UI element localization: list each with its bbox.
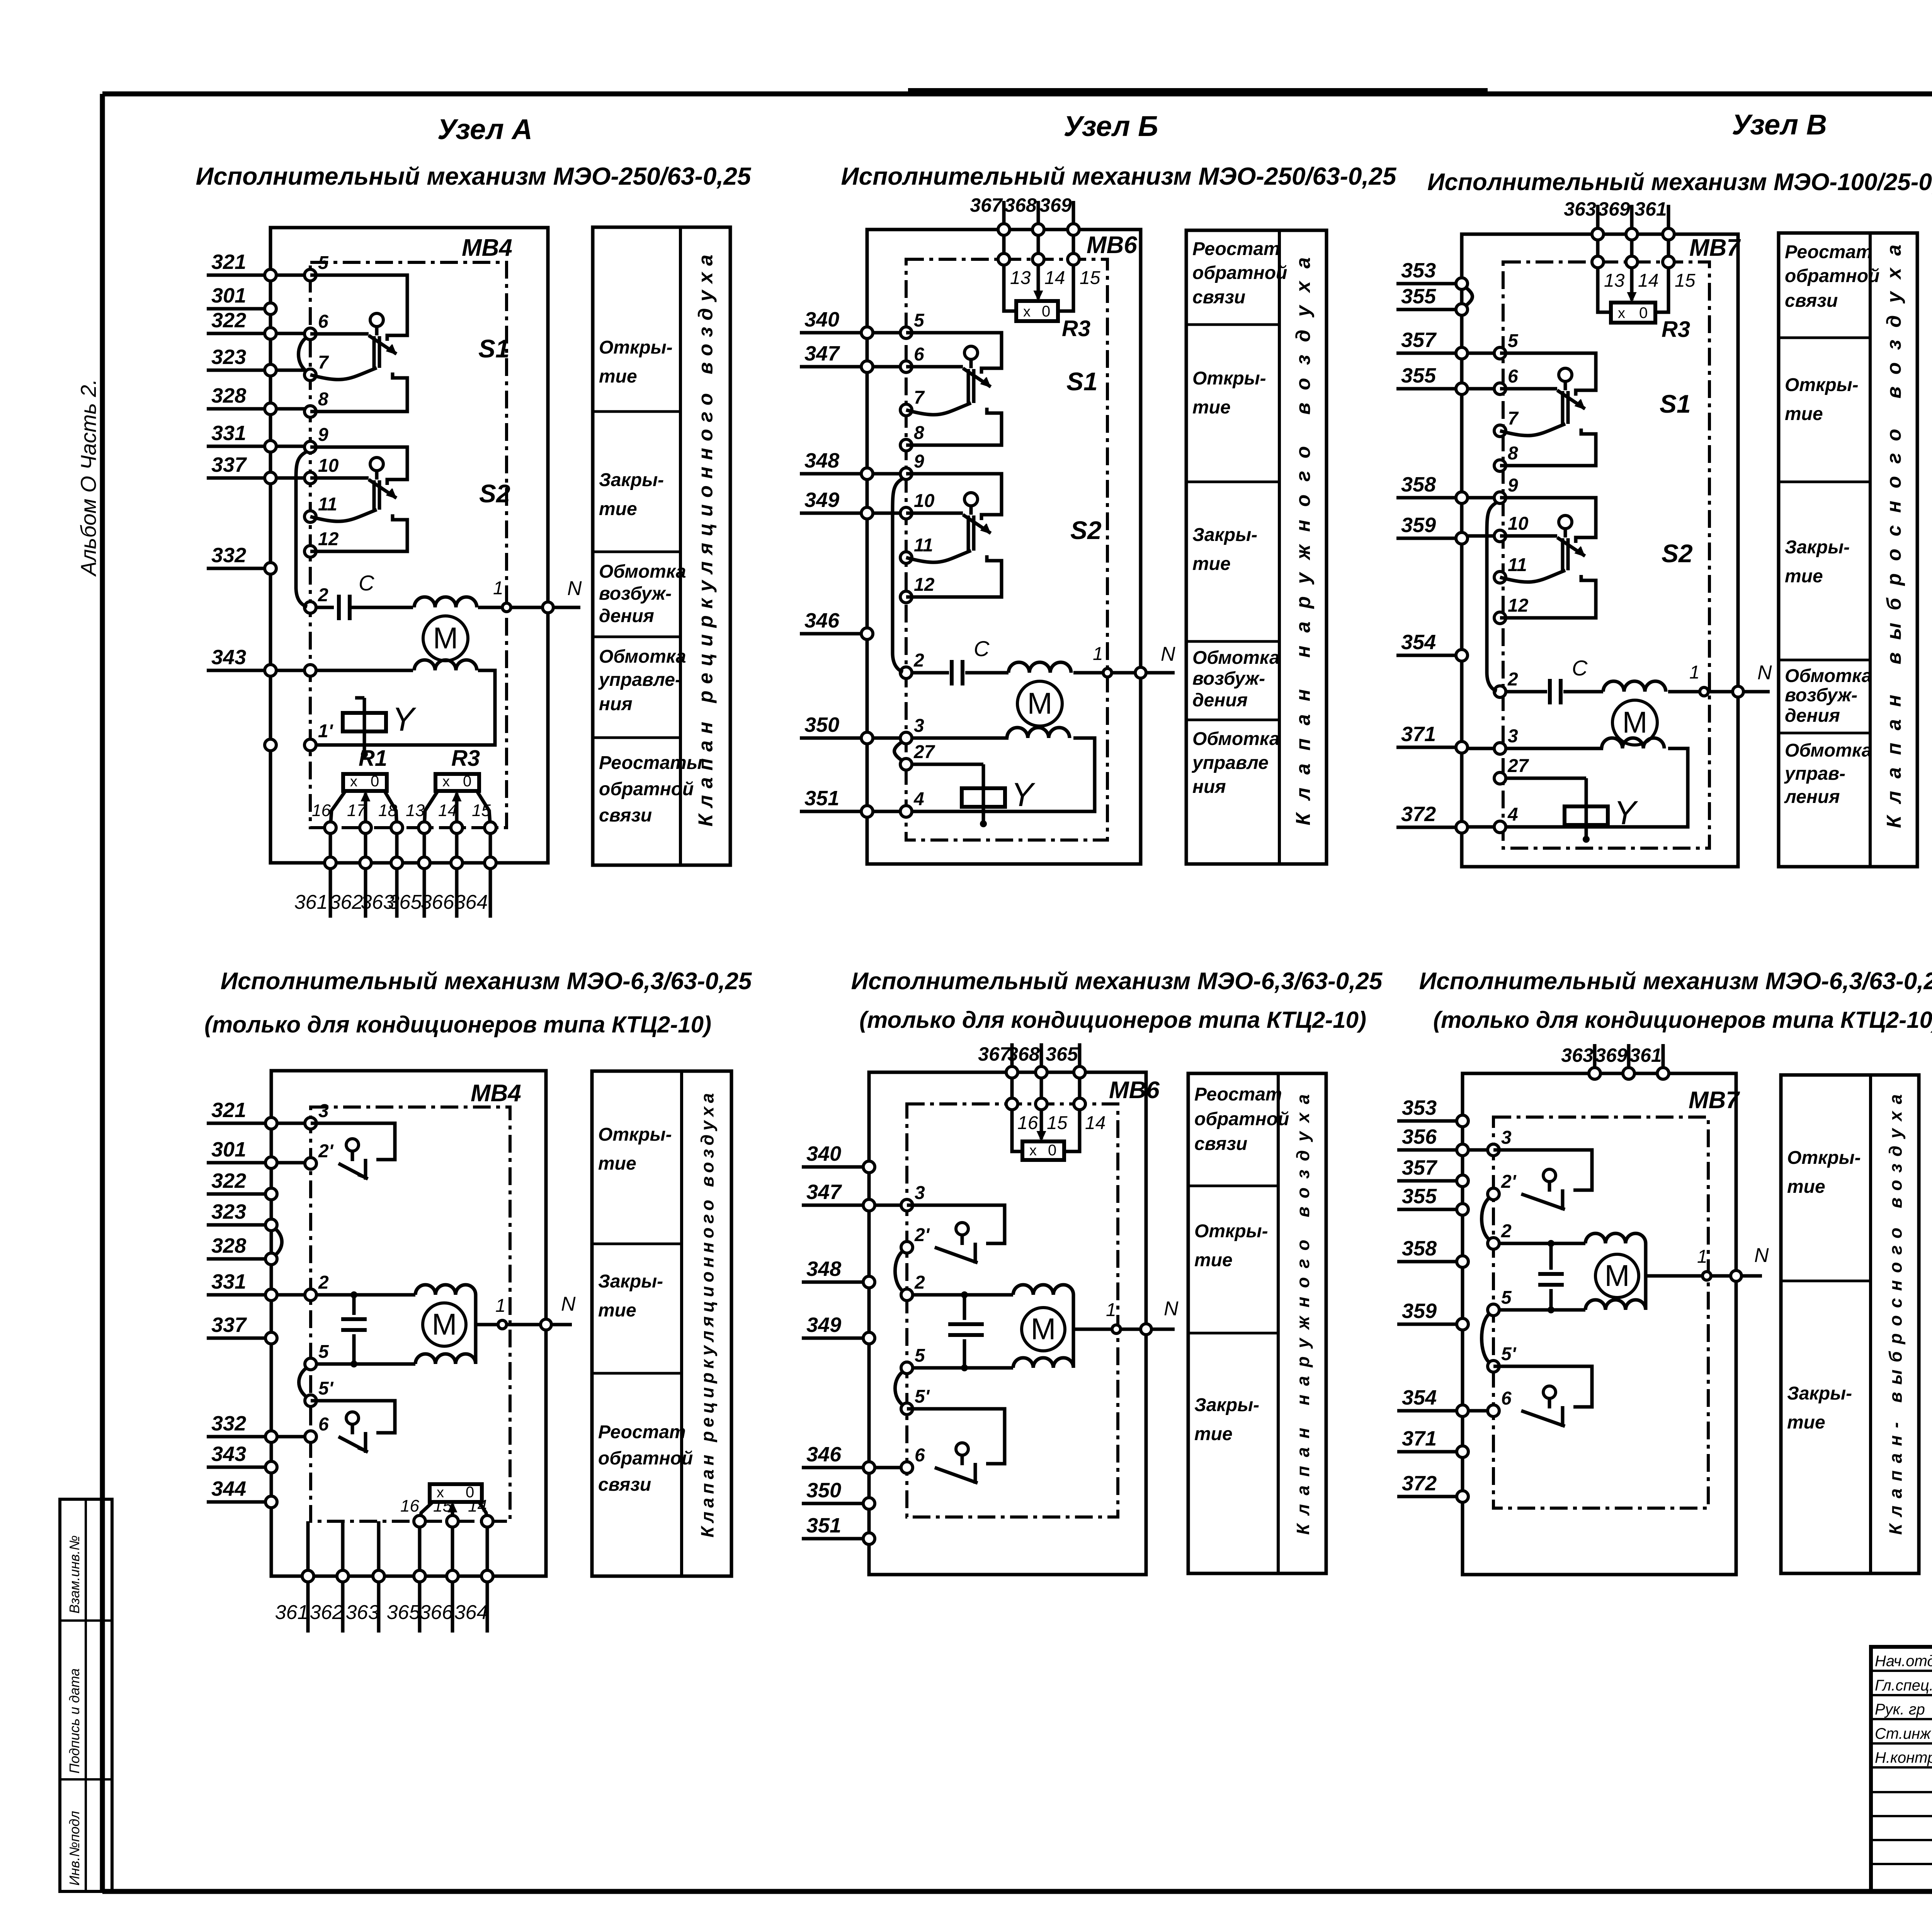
wire pin 14 down [455,833,459,857]
svg-text:тие: тие [1785,404,1823,424]
pin 8 [900,423,924,451]
svg-text:350: 350 [804,713,839,736]
svg-text:М: М [432,1307,457,1341]
svg-text:2: 2 [914,1272,925,1293]
svg-text:15: 15 [1047,1113,1068,1133]
svg-text:14: 14 [468,1497,487,1515]
node N circuit c6 [1141,1298,1179,1335]
wire pin 16 down [329,833,332,857]
svg-text:9: 9 [318,425,328,445]
svg-text:371: 371 [1401,723,1436,746]
svg-text:355: 355 [1401,364,1436,387]
supply terminal 367 circuit Б [970,194,1010,235]
svg-text:обратной: обратной [1785,266,1879,286]
svg-text:366: 366 [420,1601,453,1624]
pin 9 [900,451,924,480]
svg-text:11: 11 [318,494,337,515]
svg-text:тие: тие [1785,566,1823,587]
header mechanism c6 line1 [851,968,1383,995]
svg-text:7: 7 [318,352,329,373]
wire terminal link Б y=1910 [873,736,900,740]
terminal 353 [1396,259,1468,289]
terminal bottom x=1171 circuit c5 [447,1570,458,1582]
terminal 328 [207,384,276,415]
svg-text:4: 4 [1507,804,1518,825]
node N circuit c5 [541,1293,576,1330]
terminal bottom x=1027 circuit A [391,857,403,869]
terminal 332 [207,1412,277,1442]
svg-text:обратной: обратной [1192,263,1287,283]
label МВ6 [1087,232,1137,259]
pin 15 circuit В [1663,256,1696,291]
svg-text:3: 3 [1501,1128,1512,1148]
svg-text:ления: ления [1784,787,1840,807]
svg-text:14: 14 [1638,270,1658,291]
terminal 331 [207,1270,277,1301]
svg-text:МВ4: МВ4 [462,235,512,261]
wire pin 13 down [423,833,426,857]
margin stamp column [60,1499,112,1891]
svg-text:15: 15 [472,801,491,820]
limit switch S2 [1500,498,1693,618]
wire terminal link c6 y=3119 [875,1204,901,1207]
pin 3 [900,716,924,744]
upper winding circuit c5 [415,1285,476,1295]
pin 2 [1488,1221,1512,1249]
svg-text:5: 5 [1508,331,1519,351]
svg-text:Обмотка: Обмотка [1192,729,1280,749]
wire pin2 to winding c5 [316,1293,415,1297]
wire terminal link В y=1937 [1468,747,1494,750]
terminal 331 [207,422,276,452]
supply terminal 363 circuit В [1564,198,1604,240]
pin 14 circuit c6 [1074,1098,1105,1133]
wire terminal link c7 y=3651 [1468,1409,1488,1413]
svg-text:N: N [1754,1244,1769,1267]
svg-text:8: 8 [318,389,328,410]
lead label 363 circuit c5 [346,1601,379,1624]
solenoid Y circuit В [1565,778,1638,842]
svg-text:5: 5 [318,1342,329,1362]
svg-text:361: 361 [275,1601,309,1624]
svg-text:Закры-: Закры- [599,470,664,490]
svg-text:323: 323 [211,1200,246,1223]
title block grid left [1871,1647,1932,1891]
wire lead 18 [395,869,399,918]
svg-text:353: 353 [1401,259,1436,282]
capacitor branch top c6 [962,1292,967,1320]
svg-text:Узел В: Узел В [1732,109,1827,141]
svg-text:6: 6 [1508,366,1518,387]
pin 3 [1488,1128,1512,1156]
lower winding circuit c7 [1585,1300,1646,1310]
terminal 328 [207,1234,277,1265]
svg-text:Откры-: Откры- [1192,368,1266,389]
pin 12 [1494,595,1529,624]
svg-text:362: 362 [330,891,363,913]
lower winding circuit c6 [1013,1358,1073,1368]
svg-text:Исполнительный механизм МЭО-6,: Исполнительный механизм МЭО-6,3/63-0,25 [851,968,1383,995]
svg-text:Обмотка: Обмотка [1785,666,1872,686]
jumper pins 2'-2 circuit c7 [1482,1197,1491,1240]
svg-text:(только для кондиционеров типа: (только для кондиционеров типа КТЦ2-10) [1433,1007,1932,1033]
svg-text:Исполнительный механизм МЭО-1: Исполнительный механизм МЭО-100/25-0,25 [1427,169,1932,196]
svg-text:Откры-: Откры- [1194,1221,1268,1242]
label C circuit В [1572,656,1588,680]
supply terminal 365 circuit c6 [1046,1043,1085,1078]
svg-text:11: 11 [914,535,933,556]
pin 14 circuit Б [1032,253,1065,288]
svg-text:S1: S1 [478,334,510,363]
terminal 332 [207,544,276,574]
svg-text:тие: тие [1192,554,1231,574]
svg-text:363: 363 [1561,1044,1594,1066]
svg-text:5': 5' [915,1386,930,1407]
svg-text:х: х [1023,304,1031,320]
svg-text:11: 11 [1508,555,1527,575]
motor M circuit A [423,616,468,661]
wire lead below x=1171 circuit c5 [451,1582,454,1633]
motor M circuit Б [1017,681,1062,726]
circuit Б enclosure box [867,230,1141,864]
label МВ7 circuit В [1689,235,1741,261]
svg-text:5: 5 [1501,1287,1512,1308]
wire pin2 to winding c7 [1499,1242,1585,1245]
terminal 358 [1397,1237,1468,1267]
svg-text:337: 337 [211,1313,247,1337]
svg-text:C: C [1572,656,1588,680]
svg-text:8: 8 [1508,443,1518,464]
wire lead x=797 circuit c5 [306,1521,310,1570]
wire pin 15 down [489,833,492,857]
upper winding circuit c6 [1013,1285,1073,1295]
node N circuit c7 [1731,1244,1769,1281]
jumper pins 5-5' circuit c6 [895,1371,904,1406]
svg-text:1: 1 [1689,662,1700,683]
wire terminal link Б y=861 [873,331,900,335]
svg-text:Подпись и дата: Подпись и дата [66,1668,82,1774]
svg-text:17: 17 [347,801,366,820]
svg-text:18: 18 [378,801,397,820]
node 1 circuit c5 [495,1296,507,1329]
wire terminal link y=1155 [276,445,304,448]
terminal 355 [1396,364,1468,395]
svg-text:1: 1 [1106,1300,1116,1320]
pin node control winding circuit A [304,665,316,676]
header mechanism A [196,162,752,190]
wire pin down x=1086 circuit c5 [418,1527,422,1570]
jumper pins 6-7 [299,337,308,372]
header mechanism c7 line1 [1419,968,1932,995]
svg-text:Реостат: Реостат [1785,242,1872,262]
wire terminal link y=863 [276,332,304,335]
lead label 363 circuit A [361,891,395,913]
svg-text:359: 359 [1402,1299,1437,1323]
wire terminal link y=1058 [276,407,304,411]
svg-text:4: 4 [913,789,924,810]
svg-text:тие: тие [1192,397,1231,418]
svg-text:321: 321 [211,250,246,274]
svg-text:0: 0 [371,773,379,790]
svg-text:346: 346 [806,1443,842,1466]
terminal 371 [1397,1427,1468,1458]
svg-text:5': 5' [1501,1344,1517,1364]
terminal 346 [800,609,873,639]
pin 4 [1494,804,1518,833]
svg-text:10: 10 [914,491,935,511]
pin 17 circuit A [347,801,371,833]
lead label 361 circuit A [294,891,328,913]
capacitor C circuit A [339,595,350,620]
svg-text:12: 12 [914,575,935,595]
pin 6 [900,344,924,372]
pin 5' [1488,1344,1517,1372]
limit switch S1 [1500,353,1691,466]
svg-text:0: 0 [463,773,471,790]
pin 13 circuit A [406,801,430,833]
svg-text:1: 1 [495,1296,506,1316]
svg-text:12: 12 [318,529,339,549]
svg-text:связи: связи [598,1475,651,1495]
label МВ7 circuit c7 [1689,1087,1740,1114]
svg-text:S1: S1 [1660,389,1691,418]
pin 2' [1488,1172,1517,1200]
terminal 340 [802,1142,875,1173]
svg-text:364: 364 [454,1601,488,1624]
feedback rheostat circuit c6 [1022,1110,1064,1160]
limit switch 5'-6 circuit c7 [1493,1366,1592,1427]
winding join circuit c6 [1072,1295,1075,1368]
terminal 348 [800,449,873,480]
svg-text:369: 369 [1039,194,1072,216]
circuit c5 actuator dash-dot boundary МВ4 [311,1107,510,1521]
svg-text:Обмотка: Обмотка [599,561,686,582]
svg-text:обратной: обратной [598,1448,693,1469]
svg-text:ния: ния [1192,777,1226,797]
wire terminal link c7 y=2976 [1468,1148,1488,1152]
header Узел Б [1063,110,1158,142]
svg-text:7: 7 [914,388,925,408]
svg-text:М: М [1031,1312,1056,1346]
rheostat R3 circuit A [435,746,480,828]
svg-text:6: 6 [318,1414,329,1435]
svg-text:возбуж-: возбуж- [1785,685,1857,706]
circuit c6 actuator dash-dot boundary МВ6 [907,1104,1118,1517]
wire terminal link c5 y=2907 [277,1122,305,1125]
title row Рук. гр [1875,1700,1932,1718]
pin 16 circuit c5 [400,1497,425,1527]
svg-text:Исполнительный механизм МЭО-25: Исполнительный механизм МЭО-250/63-0,25 [841,162,1397,190]
terminal 355 [1396,285,1468,315]
svg-text:363: 363 [1564,198,1596,220]
limit switch 3-2' circuit c7 [1493,1150,1592,1210]
label МВ4 circuit c5 [471,1080,521,1107]
wire terminal link c5 y=3351 [277,1293,305,1297]
node N circuit Б [1135,643,1175,678]
svg-text:Н.контр.: Н.контр. [1875,1749,1932,1766]
svg-text:управ-: управ- [1784,764,1845,784]
capacitor branch bottom c7 [1548,1289,1554,1313]
svg-text:тие: тие [598,1153,636,1174]
svg-text:365: 365 [1046,1043,1078,1065]
svg-text:связи: связи [1192,287,1245,308]
pin 5 [1494,331,1519,359]
table circuit Б [1186,230,1327,864]
svg-text:10: 10 [318,456,339,476]
winding join circuit c5 [474,1295,478,1364]
svg-text:337: 337 [211,453,247,476]
svg-text:1: 1 [1093,644,1103,664]
pin 27 [900,742,935,770]
capacitor C circuit Б [952,660,963,685]
svg-text:369: 369 [1598,198,1630,220]
pin 14 circuit c5 [468,1497,493,1527]
svg-text:362: 362 [310,1601,344,1624]
svg-text:16: 16 [1017,1113,1038,1133]
svg-text:367: 367 [970,194,1003,216]
wires supply to pins circuit c6 [1012,1078,1080,1098]
svg-text:348: 348 [804,449,839,472]
svg-text:связи: связи [1785,291,1838,311]
motor M circuit c7 [1595,1254,1639,1298]
node N circuit В [1733,662,1772,697]
supply terminal 369 circuit В [1598,198,1638,240]
circuit c5 enclosure box [271,1071,546,1576]
table circuit A [593,227,730,865]
supply terminal 369 circuit Б [1039,194,1079,235]
pin 5 [901,1345,925,1374]
pin 6 [304,311,328,340]
terminal 359 [1397,1299,1468,1330]
motor M circuit c5 [423,1303,466,1346]
svg-text:МВ4: МВ4 [471,1080,521,1107]
lead label 366 circuit A [421,891,454,913]
svg-text:0: 0 [1639,304,1648,321]
svg-text:R3: R3 [451,746,480,771]
svg-text:3: 3 [915,1183,925,1203]
title row Гл.спец. [1875,1676,1932,1694]
svg-text:340: 340 [804,308,839,331]
terminal 358 [1396,473,1468,503]
svg-text:управле-: управле- [598,670,681,690]
wire link pin9 to pin2 [296,451,307,607]
wire terminal link Б y=1226 [873,472,900,476]
svg-text:365: 365 [388,891,422,913]
svg-text:Y: Y [1614,794,1638,832]
svg-text:(только для кондиционеров ти: (только для кондиционеров типа КТЦ2-10) [204,1012,711,1037]
svg-text:R3: R3 [1662,317,1690,342]
node 1 circuit A [493,578,511,612]
svg-text:Закры-: Закры- [1194,1395,1259,1415]
svg-text:354: 354 [1402,1386,1437,1409]
svg-text:371: 371 [1402,1427,1437,1450]
wire terminal link В y=2140 [1468,825,1494,829]
svg-text:тие: тие [1194,1424,1233,1444]
winding join circuit c7 [1644,1243,1648,1310]
wire pin 17 down [364,833,367,857]
svg-text:МВ7: МВ7 [1689,235,1741,261]
pin 2' [901,1225,930,1253]
svg-text:331: 331 [211,422,246,445]
wire pin27 to solenoid В [1506,777,1586,780]
svg-text:2: 2 [1501,1221,1512,1242]
svg-text:359: 359 [1401,514,1436,537]
svg-text:372: 372 [1402,1472,1437,1495]
pin 3 [1494,726,1518,754]
wire pin3 to control winding Б [912,736,1009,740]
svg-text:351: 351 [806,1514,841,1537]
svg-text:9: 9 [1508,475,1518,496]
limit switch 5'-6 circuit c6 [907,1409,1005,1484]
limit switch 3-2' circuit c5 [311,1123,395,1180]
lead label 361 circuit c5 [275,1601,309,1624]
terminal 354 [1396,631,1468,661]
pin 15 circuit c5 [433,1497,458,1527]
supply terminal 361 circuit c7 [1629,1044,1669,1079]
wire winding to N circuit A [478,606,580,609]
wire lead 13 [423,869,426,918]
svg-text:10: 10 [1508,514,1529,534]
terminal 353 [1397,1096,1468,1127]
svg-text:Реостат: Реостат [1194,1084,1282,1105]
wire pin2 to winding Б [912,671,1009,675]
wires R3 to pins 13 15 [424,791,490,828]
wire pin5 to winding c7 [1499,1308,1585,1312]
pin 10 [304,456,339,484]
circuit A actuator dash-dot boundary МВ4 [310,262,507,828]
svg-text:S2: S2 [1662,539,1693,568]
svg-text:R3: R3 [1062,316,1090,341]
terminal bottom x=855 circuit A [325,857,336,869]
lead label 362 circuit c5 [310,1601,344,1624]
svg-text:322: 322 [211,1169,246,1192]
terminal bottom x=1269 circuit A [485,857,496,869]
wire winding to N circuit Б [1073,671,1175,675]
wires pins 16 14 to rheostat c6 [1012,1110,1080,1151]
svg-text:301: 301 [211,284,246,307]
svg-text:(только для кондиционеров тип: (только для кондиционеров типа КТЦ2-10) [859,1007,1366,1033]
jumper pins 2'-2 circuit c6 [895,1250,904,1292]
svg-text:328: 328 [211,384,246,407]
terminal bottom x=1261 circuit c5 [481,1570,493,1582]
terminal 349 [802,1313,875,1344]
svg-text:дения: дения [599,606,654,626]
pin 5 [900,310,925,338]
svg-text:16: 16 [400,1497,419,1515]
rheostat R1 circuit A [343,746,387,828]
wire terminal link В y=1006 [1468,387,1494,391]
terminal 301 [207,284,276,315]
svg-text:Y: Y [1011,776,1036,813]
svg-text:368: 368 [1007,1043,1040,1065]
svg-text:Обмотка: Обмотка [599,646,686,667]
wires pins 13 15 to R3 circuit В [1598,268,1668,312]
svg-text:Исполнительный механизм МЭО-6: Исполнительный механизм МЭО-6,3/63-0,25 [221,968,752,995]
pin 6 [305,1414,329,1442]
node 1 circuit Б [1093,644,1112,677]
terminal 372 [1396,803,1468,833]
header Узел В [1732,109,1827,141]
node N circuit A [543,577,582,613]
terminal 347 [800,342,873,372]
svg-text:363: 363 [346,1601,379,1624]
svg-text:Откры-: Откры- [599,337,673,358]
title row Н.контр. [1875,1748,1932,1766]
svg-text:N: N [1757,662,1772,684]
limit switch S1 [310,275,510,412]
lower winding circuit c5 [415,1354,476,1364]
svg-text:6: 6 [1501,1388,1512,1409]
